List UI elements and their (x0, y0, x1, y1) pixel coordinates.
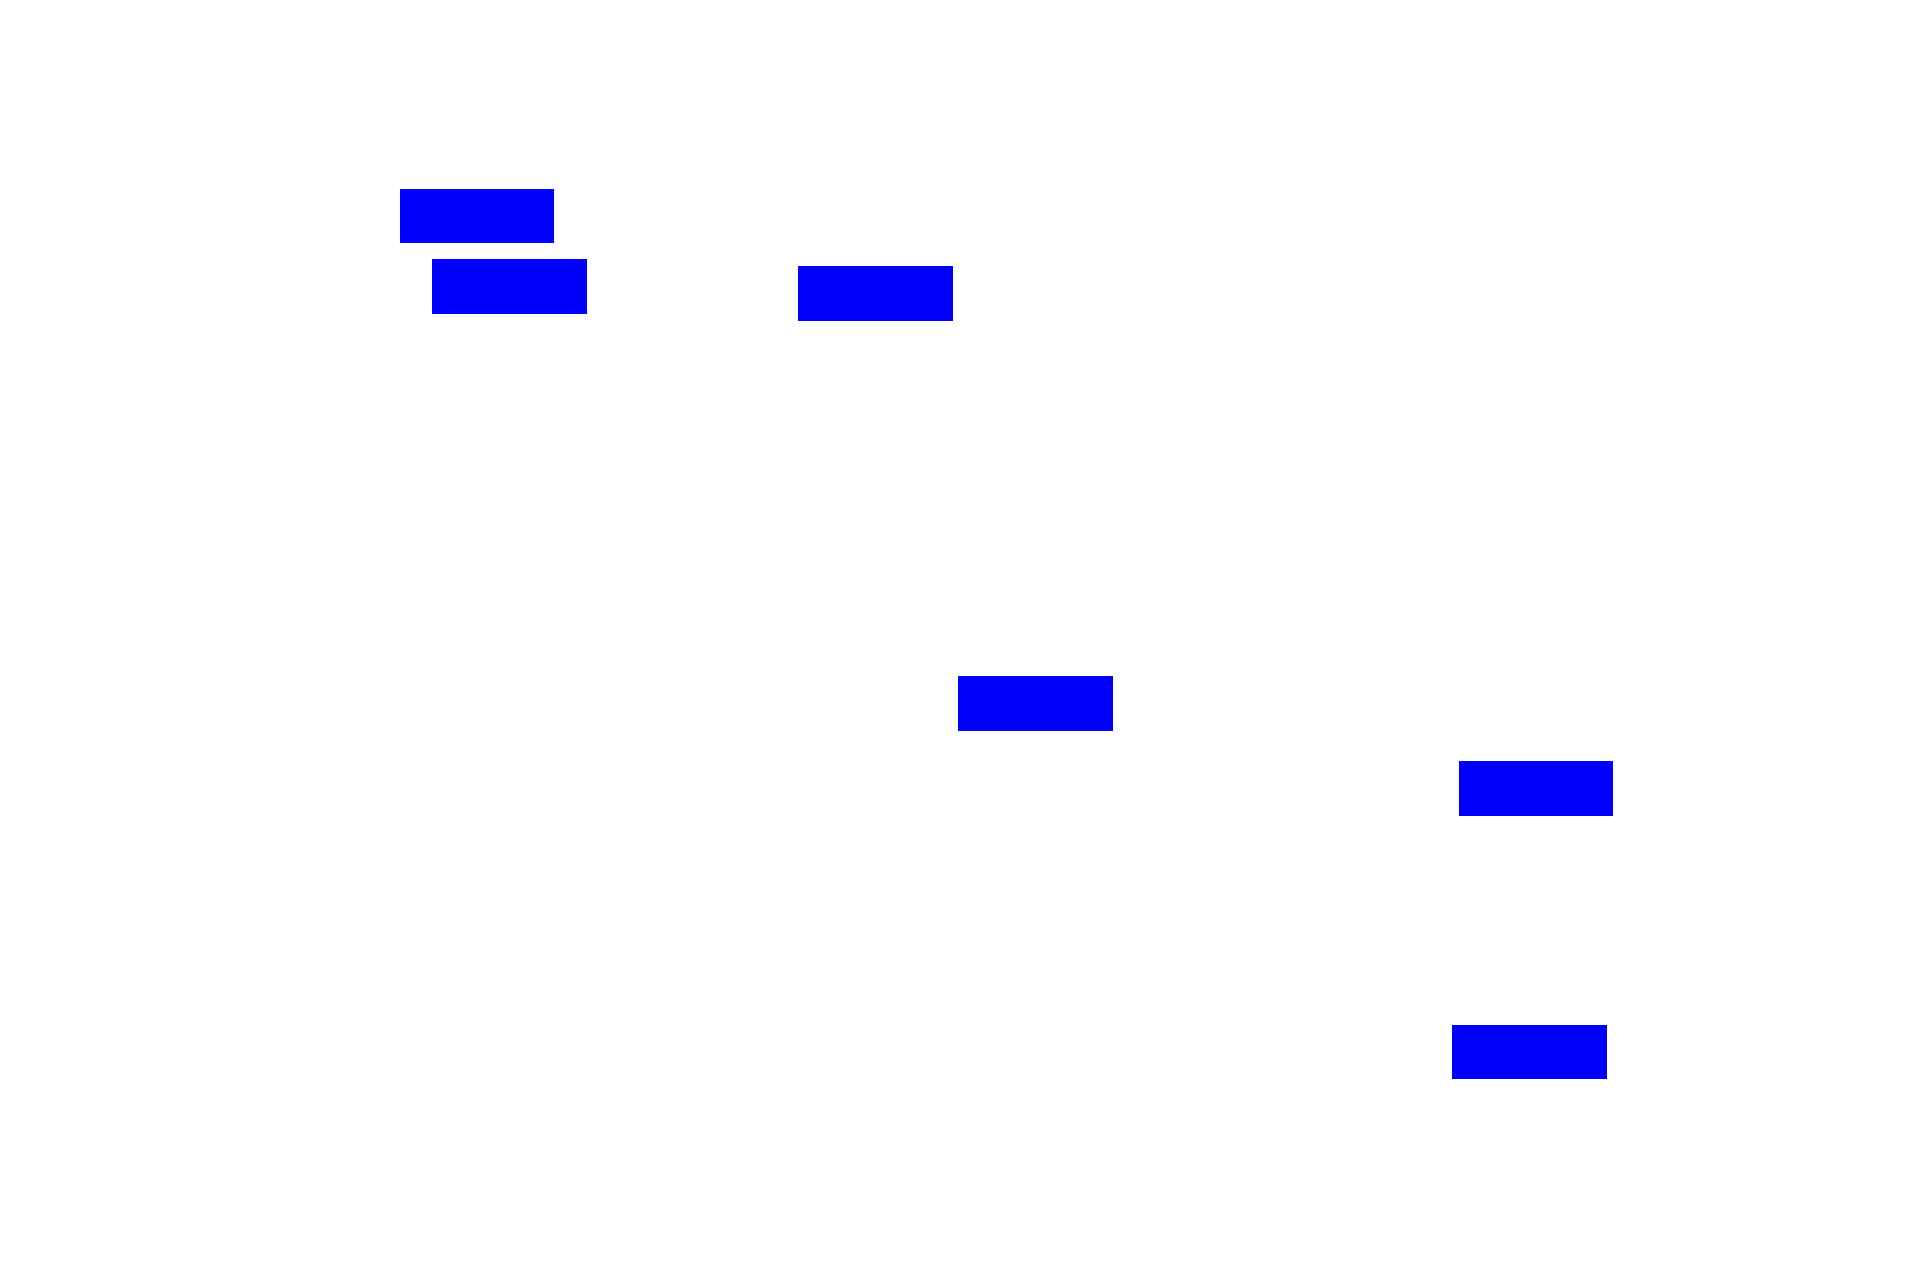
blue box 5 (right) (1459, 761, 1613, 816)
blue box 3 (top-middle) (798, 266, 953, 321)
blue box 6 (lower-right) (1452, 1025, 1607, 1079)
blue box 2 (below-right of box 1) (432, 259, 587, 314)
blue box 4 (center) (958, 676, 1113, 731)
blue box 1 (top-left) (400, 189, 554, 243)
